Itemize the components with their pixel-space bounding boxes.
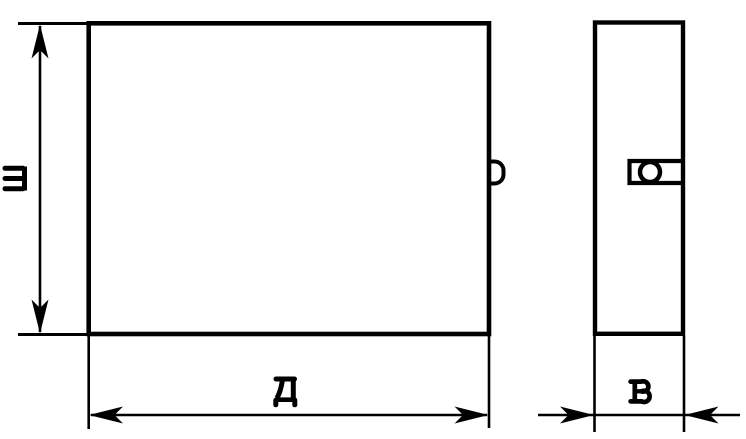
extension line left of В dimension <box>593 336 596 432</box>
Д arrow right <box>455 407 489 424</box>
extension line left of Д dimension <box>87 336 90 429</box>
Ш arrow up <box>32 25 49 59</box>
bracket hole <box>640 162 660 182</box>
extension line top of Ш dimension <box>18 22 87 25</box>
Ш dimension line <box>39 26 42 332</box>
Ш arrow down <box>32 300 49 334</box>
В arrow pointing right at left extension <box>560 407 594 424</box>
hanger tab on right edge of front view <box>489 162 504 184</box>
extension line right of В dimension <box>683 336 686 432</box>
mounting bracket in side view <box>630 161 684 183</box>
Д dimension line <box>91 414 487 417</box>
Д arrow left <box>89 407 123 424</box>
extension line right of Д dimension <box>488 336 491 428</box>
label Ш (rotated, drawn as strokes) <box>5 167 25 191</box>
label Д (drawn as strokes) <box>276 379 295 405</box>
label В (drawn as strokes) <box>631 381 650 402</box>
front view panel outline <box>89 23 489 334</box>
side view panel outline <box>595 23 683 334</box>
В dimension line with outside tails <box>538 414 740 417</box>
В arrow pointing left at right extension <box>685 407 719 424</box>
extension line bottom of Ш dimension <box>18 333 87 336</box>
